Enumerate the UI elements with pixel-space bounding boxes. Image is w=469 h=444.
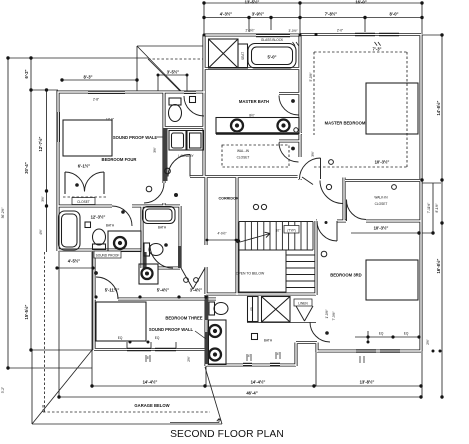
svg-text:4½": 4½" (39, 229, 43, 235)
svg-text:2'-8": 2'-8" (93, 98, 99, 102)
door laundry (168, 155, 190, 177)
door walk-in closet inner (346, 200, 366, 222)
svg-text:5'-0½": 5'-0½" (309, 72, 313, 81)
door walk-in closet corridor (320, 181, 343, 204)
wire dashed attic line top-left (148, 58, 203, 60)
svg-text:EQ: EQ (118, 336, 123, 340)
svg-text:4'-3½": 4'-3½" (220, 12, 233, 17)
svg-text:3½": 3½" (41, 196, 45, 202)
svg-text:36'-2½": 36'-2½" (1, 208, 5, 219)
svg-text:CLOSET: CLOSET (375, 202, 388, 206)
closet v-doors hallway (181, 268, 205, 289)
linen closet x-box (262, 297, 291, 323)
svg-text:12'-7½": 12'-7½" (38, 137, 43, 152)
outlet square wc (190, 97, 196, 103)
svg-text:LAUNDRY: LAUNDRY (178, 154, 194, 158)
wire title leader (170, 419, 221, 423)
svg-text:05: 05 (250, 307, 254, 311)
stair top door leaf (302, 177, 313, 185)
svg-text:12'-6": 12'-6" (106, 118, 114, 122)
closet bedroom four sides (65, 172, 104, 194)
door bedroom four (144, 183, 164, 203)
leader lines (146, 137, 364, 363)
svg-text:5'-0": 5'-0" (267, 55, 276, 60)
hatched wall below bath one (143, 252, 147, 269)
wire bottom dim lines (59, 252, 422, 397)
svg-text:14'-4½": 14'-4½" (143, 380, 158, 385)
svg-text:EQ: EQ (155, 336, 160, 340)
svg-text:5': 5' (147, 356, 150, 360)
bath one vanity (108, 231, 141, 252)
bath one tub (59, 211, 81, 250)
dark knob dots (75, 99, 329, 335)
stairs (239, 222, 315, 293)
svg-text:SEAT: SEAT (241, 52, 245, 60)
svg-text:3'-5½": 3'-5½" (167, 70, 180, 75)
svg-text:12'-3½": 12'-3½" (91, 215, 106, 220)
boxed labels (72, 198, 312, 307)
svg-text:2½": 2½" (426, 339, 430, 345)
dryer (187, 131, 204, 151)
wire top dim line 1 (204, 3, 422, 35)
bath two tub (143, 207, 176, 224)
svg-text:2'-3½": 2'-3½" (245, 29, 254, 33)
svg-text:GARAGE BELOW: GARAGE BELOW (134, 403, 169, 408)
sink master 2 (278, 120, 290, 132)
dashed walk-in closet master bath (222, 145, 289, 167)
linen v-doors (296, 306, 313, 321)
svg-text:BEDROOM THREE: BEDROOM THREE (165, 316, 202, 321)
sound proof hatched wall laundry (163, 128, 168, 181)
door opening erasures (96, 95, 366, 302)
washer (169, 131, 186, 151)
svg-text:15'-5½": 15'-5½" (24, 305, 29, 320)
bath three vanity (209, 320, 227, 365)
svg-text:SOUND PROOF WALL: SOUND PROOF WALL (113, 135, 158, 140)
svg-text:BEDROOM 3RD: BEDROOM 3RD (330, 273, 361, 278)
wire window tick marks bedroom three (127, 342, 176, 349)
hatched sound proof wall bath three lower (205, 332, 209, 364)
svg-text:CLOSET: CLOSET (237, 156, 250, 160)
svg-text:3½": 3½" (153, 147, 157, 153)
bath two vanity (139, 264, 158, 284)
wire right dim line (422, 35, 442, 397)
wire roof outline top-left (137, 46, 203, 91)
svg-text:14'-4½": 14'-4½" (251, 380, 266, 385)
svg-text:EQ: EQ (379, 332, 384, 336)
svg-text:10": 10" (276, 229, 281, 233)
svg-text:SOUND PROOF WALL: SOUND PROOF WALL (149, 327, 194, 332)
shower master bath (209, 39, 239, 68)
sink master 1 (231, 120, 243, 132)
door bedroom two entry (317, 221, 337, 241)
svg-text:3'-0½": 3'-0½" (288, 29, 297, 33)
svg-text:14'-8½": 14'-8½" (436, 101, 441, 116)
wire interior dim bedroom two (351, 233, 433, 342)
master vanity (216, 118, 299, 134)
bed rect bedroom four (63, 120, 112, 156)
door master bath lower (279, 143, 299, 163)
svg-text:16'-0": 16'-0" (355, 0, 366, 5)
wire dashed ceiling break master bedroom (314, 52, 407, 167)
bath two sink (142, 268, 153, 279)
svg-text:4'-5½": 4'-5½" (68, 259, 81, 264)
svg-text:1'-0½": 1'-0½" (325, 309, 329, 318)
bath three shelves (248, 297, 259, 322)
svg-text:30'-4": 30'-4" (24, 162, 29, 173)
svg-text:SECOND FLOOR PLAN: SECOND FLOOR PLAN (170, 429, 284, 440)
door water closet (184, 96, 204, 116)
walls main (double line effect) (58, 35, 421, 367)
door bath three lower (310, 322, 330, 342)
hatched wall closet (178, 246, 182, 268)
svg-text:7'-3": 7'-3" (372, 47, 381, 52)
svg-text:7'-8½": 7'-8½" (325, 12, 338, 17)
svg-text:10'-3½": 10'-3½" (374, 226, 389, 231)
closet double doors bedroom four (65, 172, 104, 192)
svg-text:MASTER BEDROOM: MASTER BEDROOM (325, 121, 366, 126)
wire corridor width dim (207, 239, 236, 241)
svg-text:4': 4' (248, 354, 251, 358)
svg-text:4'-0½": 4'-0½" (217, 232, 226, 236)
svg-text:LINEN: LINEN (298, 302, 308, 306)
svg-text:2½": 2½" (187, 356, 191, 362)
svg-text:3'-4½": 3'-4½" (190, 288, 203, 293)
svg-text:3'-2": 3'-2" (1, 387, 5, 393)
bath one outlet square (85, 222, 91, 228)
stair direction arrow (240, 232, 270, 242)
svg-text:BATH: BATH (264, 339, 273, 343)
wire window dim wing top (158, 75, 187, 91)
window bars (58, 35, 400, 365)
svg-text:MASTER BATH: MASTER BATH (239, 99, 269, 104)
bed rect bedroom two (366, 260, 418, 300)
shower seat (238, 44, 248, 68)
svg-text:8'-0": 8'-0" (389, 12, 398, 17)
svg-text:4': 4' (277, 352, 280, 356)
bath two toilet (144, 243, 150, 256)
floor drain laundry (165, 168, 171, 174)
master tub (248, 44, 296, 69)
svg-text:BATH: BATH (106, 224, 115, 228)
bath three sink 2 (209, 349, 221, 361)
toilet water closet (169, 98, 181, 105)
svg-text:WAL.-IN: WAL.-IN (237, 149, 250, 153)
wire top dim line 2 (204, 18, 422, 33)
bed rect master bedroom (366, 83, 418, 134)
svg-text:BEDROOM FOUR: BEDROOM FOUR (102, 157, 137, 162)
svg-text:OPEN TO BELOW: OPEN TO BELOW (236, 272, 265, 276)
door bath two (150, 245, 173, 268)
svg-text:5'-4½": 5'-4½" (157, 288, 170, 293)
svg-text:SOUND PROOF: SOUND PROOF (96, 254, 120, 258)
svg-text:(TYP): (TYP) (287, 229, 295, 233)
door master bedroom (300, 158, 321, 179)
bath three toilet (209, 302, 215, 315)
door bedroom three (96, 277, 118, 299)
svg-text:16'-8½": 16'-8½" (436, 259, 441, 274)
svg-text:5'-11½": 5'-11½" (105, 288, 120, 293)
svg-text:7'-11½": 7'-11½" (427, 203, 431, 214)
door arcs (65, 96, 366, 343)
svg-text:13'-8½": 13'-8½" (360, 380, 375, 385)
bath one sink (114, 237, 126, 249)
svg-text:3'-9½": 3'-9½" (252, 12, 265, 17)
svg-text:2'-0": 2'-0" (337, 29, 343, 33)
wire dashed garage below outline (43, 252, 210, 412)
bed rect bedroom three (96, 302, 146, 341)
thin interior / fixtures (59, 39, 419, 365)
bath three sink 1 (209, 325, 221, 337)
svg-text:WALK-IN: WALK-IN (374, 196, 388, 200)
svg-text:CORRIDOR: CORRIDOR (218, 197, 238, 201)
wire left dim lines (8, 58, 148, 368)
svg-text:BATH: BATH (158, 226, 167, 230)
bath three outlet square (252, 334, 258, 340)
svg-text:8'-3": 8'-3" (83, 75, 92, 80)
svg-text:6'-1½": 6'-1½" (78, 164, 91, 169)
door bath one (112, 206, 132, 226)
knob circles (146, 128, 396, 283)
svg-text:10'-3½": 10'-3½" (375, 160, 390, 165)
svg-text:6'-2": 6'-2" (24, 69, 29, 78)
wire garage roof outline bottom-left (32, 350, 222, 424)
closet row bottom line (247, 322, 316, 324)
svg-text:3½": 3½" (311, 151, 315, 157)
svg-text:7'-3½": 7'-3½" (332, 311, 336, 320)
hatched sound proof wall bath three upper (205, 296, 209, 320)
window tick chevrons master bath (293, 42, 381, 46)
svg-text:EQ: EQ (404, 332, 409, 336)
bath one toilet (93, 229, 106, 245)
door master bath upper (279, 96, 299, 116)
wire dashed closet line bedroom four (63, 196, 108, 198)
svg-text:8½": 8½" (249, 114, 255, 118)
svg-text:8'-1½": 8'-1½" (435, 203, 439, 212)
wire interior dim bedroom three hall (57, 267, 93, 269)
svg-text:13'-5½": 13'-5½" (245, 0, 260, 5)
svg-text:CLOSET: CLOSET (77, 200, 90, 204)
svg-text:46'-4": 46'-4" (246, 391, 257, 396)
svg-text:GLASS BLOCK: GLASS BLOCK (261, 38, 284, 42)
